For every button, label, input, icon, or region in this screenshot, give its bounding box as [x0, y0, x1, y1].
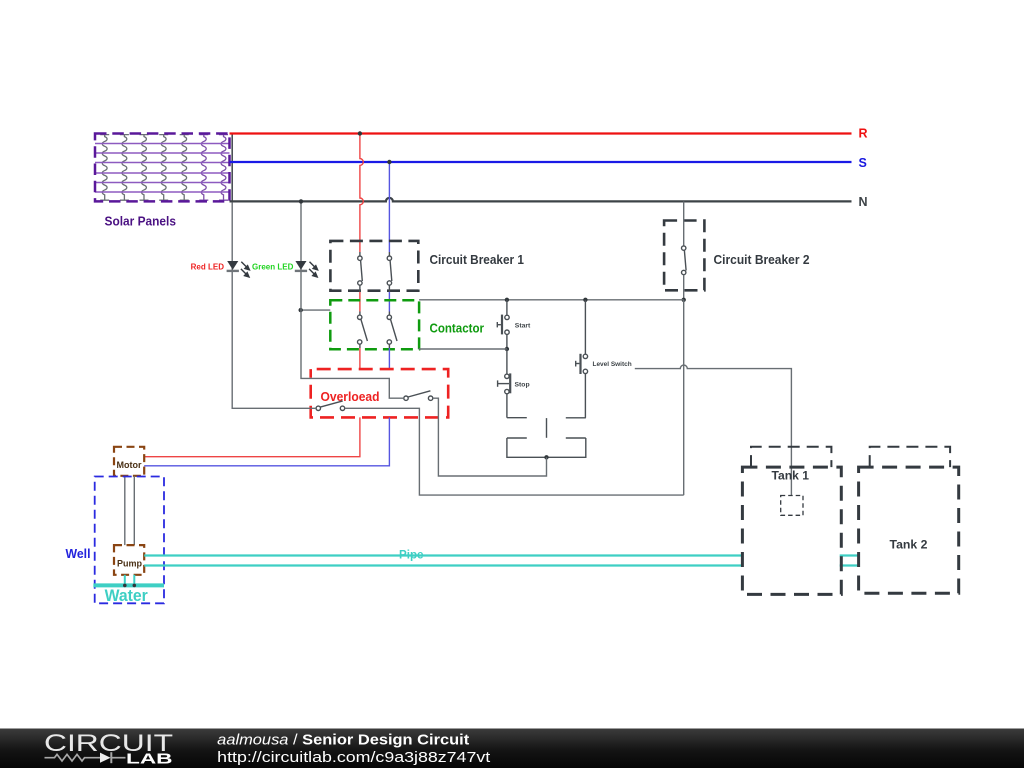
solar panel cell column 2 [120, 135, 129, 201]
solar panel bus line 1 [95, 143, 230, 145]
footer bar [0, 729, 1024, 768]
wire green-LED branch: N bus to overload switch 2 [301, 201, 404, 398]
wire motor to pump shaft 2 [133, 476, 135, 545]
svg-text:Contactor: Contactor [430, 321, 485, 336]
LED D2 (Green LED) [252, 261, 318, 277]
contactor coil A1 plates [507, 418, 586, 458]
CB2 switch [682, 246, 687, 275]
solar panel bus line 5 [95, 182, 230, 184]
level sensor box in tank 1 [781, 496, 803, 516]
solar panel bus line 4 [95, 172, 230, 174]
svg-text:Stop: Stop [515, 382, 530, 389]
node dot water 1 [123, 584, 127, 588]
node dot at Level branch [583, 298, 587, 302]
wire S bus [230, 161, 852, 163]
tank 1 lid box [751, 447, 831, 467]
svg-text:Pipe: Pipe [399, 548, 424, 562]
pump to water stub 1 [124, 575, 126, 586]
wire red-LED branch: N bus to overload switch 1 [232, 202, 316, 408]
circuit breaker CB2 box [664, 221, 704, 291]
circuit breaker CB1 box [330, 241, 418, 291]
wire blue drop below overload to motor [144, 417, 389, 465]
solar panel cell column 3 [140, 135, 149, 201]
wire CB2 junction down to bottom rail [683, 300, 685, 495]
svg-text:Tank 2: Tank 2 [890, 538, 928, 552]
wire N bus with hop over blue drop [230, 198, 852, 201]
pushbutton Stop (NC) [498, 349, 511, 418]
svg-text:N: N [859, 195, 868, 209]
pushbutton Start (NO) [497, 300, 509, 349]
contactor pole 1 switch (open) [358, 312, 368, 349]
overload switch 1 (horizontal, open) [316, 401, 345, 411]
wire coil bottom to overload switch 2 [433, 398, 547, 476]
wire red between contactor and overload [359, 348, 361, 369]
svg-text:Red LED: Red LED [191, 263, 225, 272]
svg-text:LAB: LAB [126, 751, 173, 768]
wire R bus [230, 132, 852, 134]
solar panel cell column 5 [180, 135, 189, 201]
node dot at Start branch [505, 298, 509, 302]
wire blue between CB1 and contactor [388, 292, 390, 312]
pipe lower run [144, 564, 858, 566]
svg-text:Level Switch: Level Switch [593, 361, 632, 368]
wire blue between contactor and overload [388, 348, 390, 369]
motor M box [114, 447, 144, 476]
svg-text:Green LED: Green LED [252, 263, 294, 272]
solar panel cell column 4 [159, 135, 168, 201]
wire motor to pump shaft 1 [124, 476, 126, 545]
solar panel array PV1 [95, 134, 230, 229]
svg-text:Circuit Breaker 2: Circuit Breaker 2 [714, 252, 810, 267]
node dot between Start and Stop [505, 347, 509, 351]
wire red phase drop (R to CB1) with crossover bumps [360, 134, 363, 253]
solar panel bus line 2 [95, 152, 230, 154]
pump to water stub 2 [133, 575, 135, 586]
wire control top rail [419, 299, 684, 301]
Red LED emission arrows [241, 262, 250, 277]
CB1 pole 2 switch [387, 252, 392, 292]
contactor K1 box [330, 300, 419, 349]
overload relay OL box [311, 369, 449, 417]
CB1 pole 1 switch [358, 252, 363, 292]
LED D1 (Red LED) [191, 261, 250, 277]
solar panels enclosure box [95, 134, 230, 202]
node dot on R bus [358, 131, 362, 135]
wire level switch output with hop over CB2 drop [635, 365, 792, 495]
contactor pole 2 switch (open) [387, 312, 397, 349]
svg-text:http://circuitlab.com/c9a3j88z: http://circuitlab.com/c9a3j88z747vt [217, 749, 491, 766]
wire N bus to CB2 [683, 201, 685, 246]
pump box [114, 545, 144, 575]
tank 2 lid box [870, 447, 950, 467]
svg-text:Tank 1: Tank 1 [772, 469, 810, 483]
node dot water 2 [133, 584, 137, 588]
well box [95, 477, 164, 604]
node dot at LED branch junction [299, 308, 303, 312]
wire blue phase drop (S to CB1) [388, 162, 390, 252]
tank 1 box [742, 467, 841, 594]
wire red drop below overload to motor [144, 417, 360, 456]
solar panel bus line 3 [95, 162, 230, 164]
wire from junction left to contactor bottom rail [419, 348, 507, 350]
wire red between CB1 and contactor [359, 292, 361, 312]
overload switch 2 (horizontal, open) [404, 391, 433, 401]
svg-text:Well: Well [66, 547, 91, 561]
node dot on S bus [387, 160, 391, 164]
svg-text:Overloead: Overloead [321, 389, 380, 404]
svg-text:Start: Start [515, 322, 531, 329]
node dot on N bus at green branch [299, 199, 303, 203]
wire CB2 down to control rail junction [683, 275, 685, 300]
pipe upper run [144, 554, 858, 556]
svg-text:Pump: Pump [117, 558, 143, 568]
svg-text:Solar Panels: Solar Panels [105, 214, 177, 228]
Green LED emission arrows [309, 262, 318, 277]
svg-text:S: S [859, 156, 867, 170]
solar panel cell column 7 [219, 135, 228, 201]
svg-text:Motor: Motor [117, 460, 142, 470]
wire from green-LED branch into contactor left [301, 309, 331, 311]
svg-text:aalmousa / Senior Design Circu: aalmousa / Senior Design Circuit [217, 731, 469, 748]
node dot at coil bottom [544, 455, 548, 459]
svg-text:Circuit Breaker 1: Circuit Breaker 1 [430, 252, 525, 267]
solar panel cell column 6 [199, 135, 208, 201]
solar panel bus line 6 [95, 191, 230, 193]
CircuitLab logo resistor-diode glyph [45, 752, 126, 763]
level switch LS1 [576, 300, 588, 418]
node dot control rail right [682, 298, 686, 302]
tank 2 box [859, 467, 959, 593]
solar panel cell column 1 [100, 135, 109, 201]
svg-text:R: R [859, 127, 868, 141]
water level line [93, 583, 164, 587]
svg-text:Water: Water [105, 586, 149, 605]
wire overload switch 1 output to CB2 bottom rail [345, 408, 684, 495]
node: panel output bus vertical [231, 134, 233, 203]
